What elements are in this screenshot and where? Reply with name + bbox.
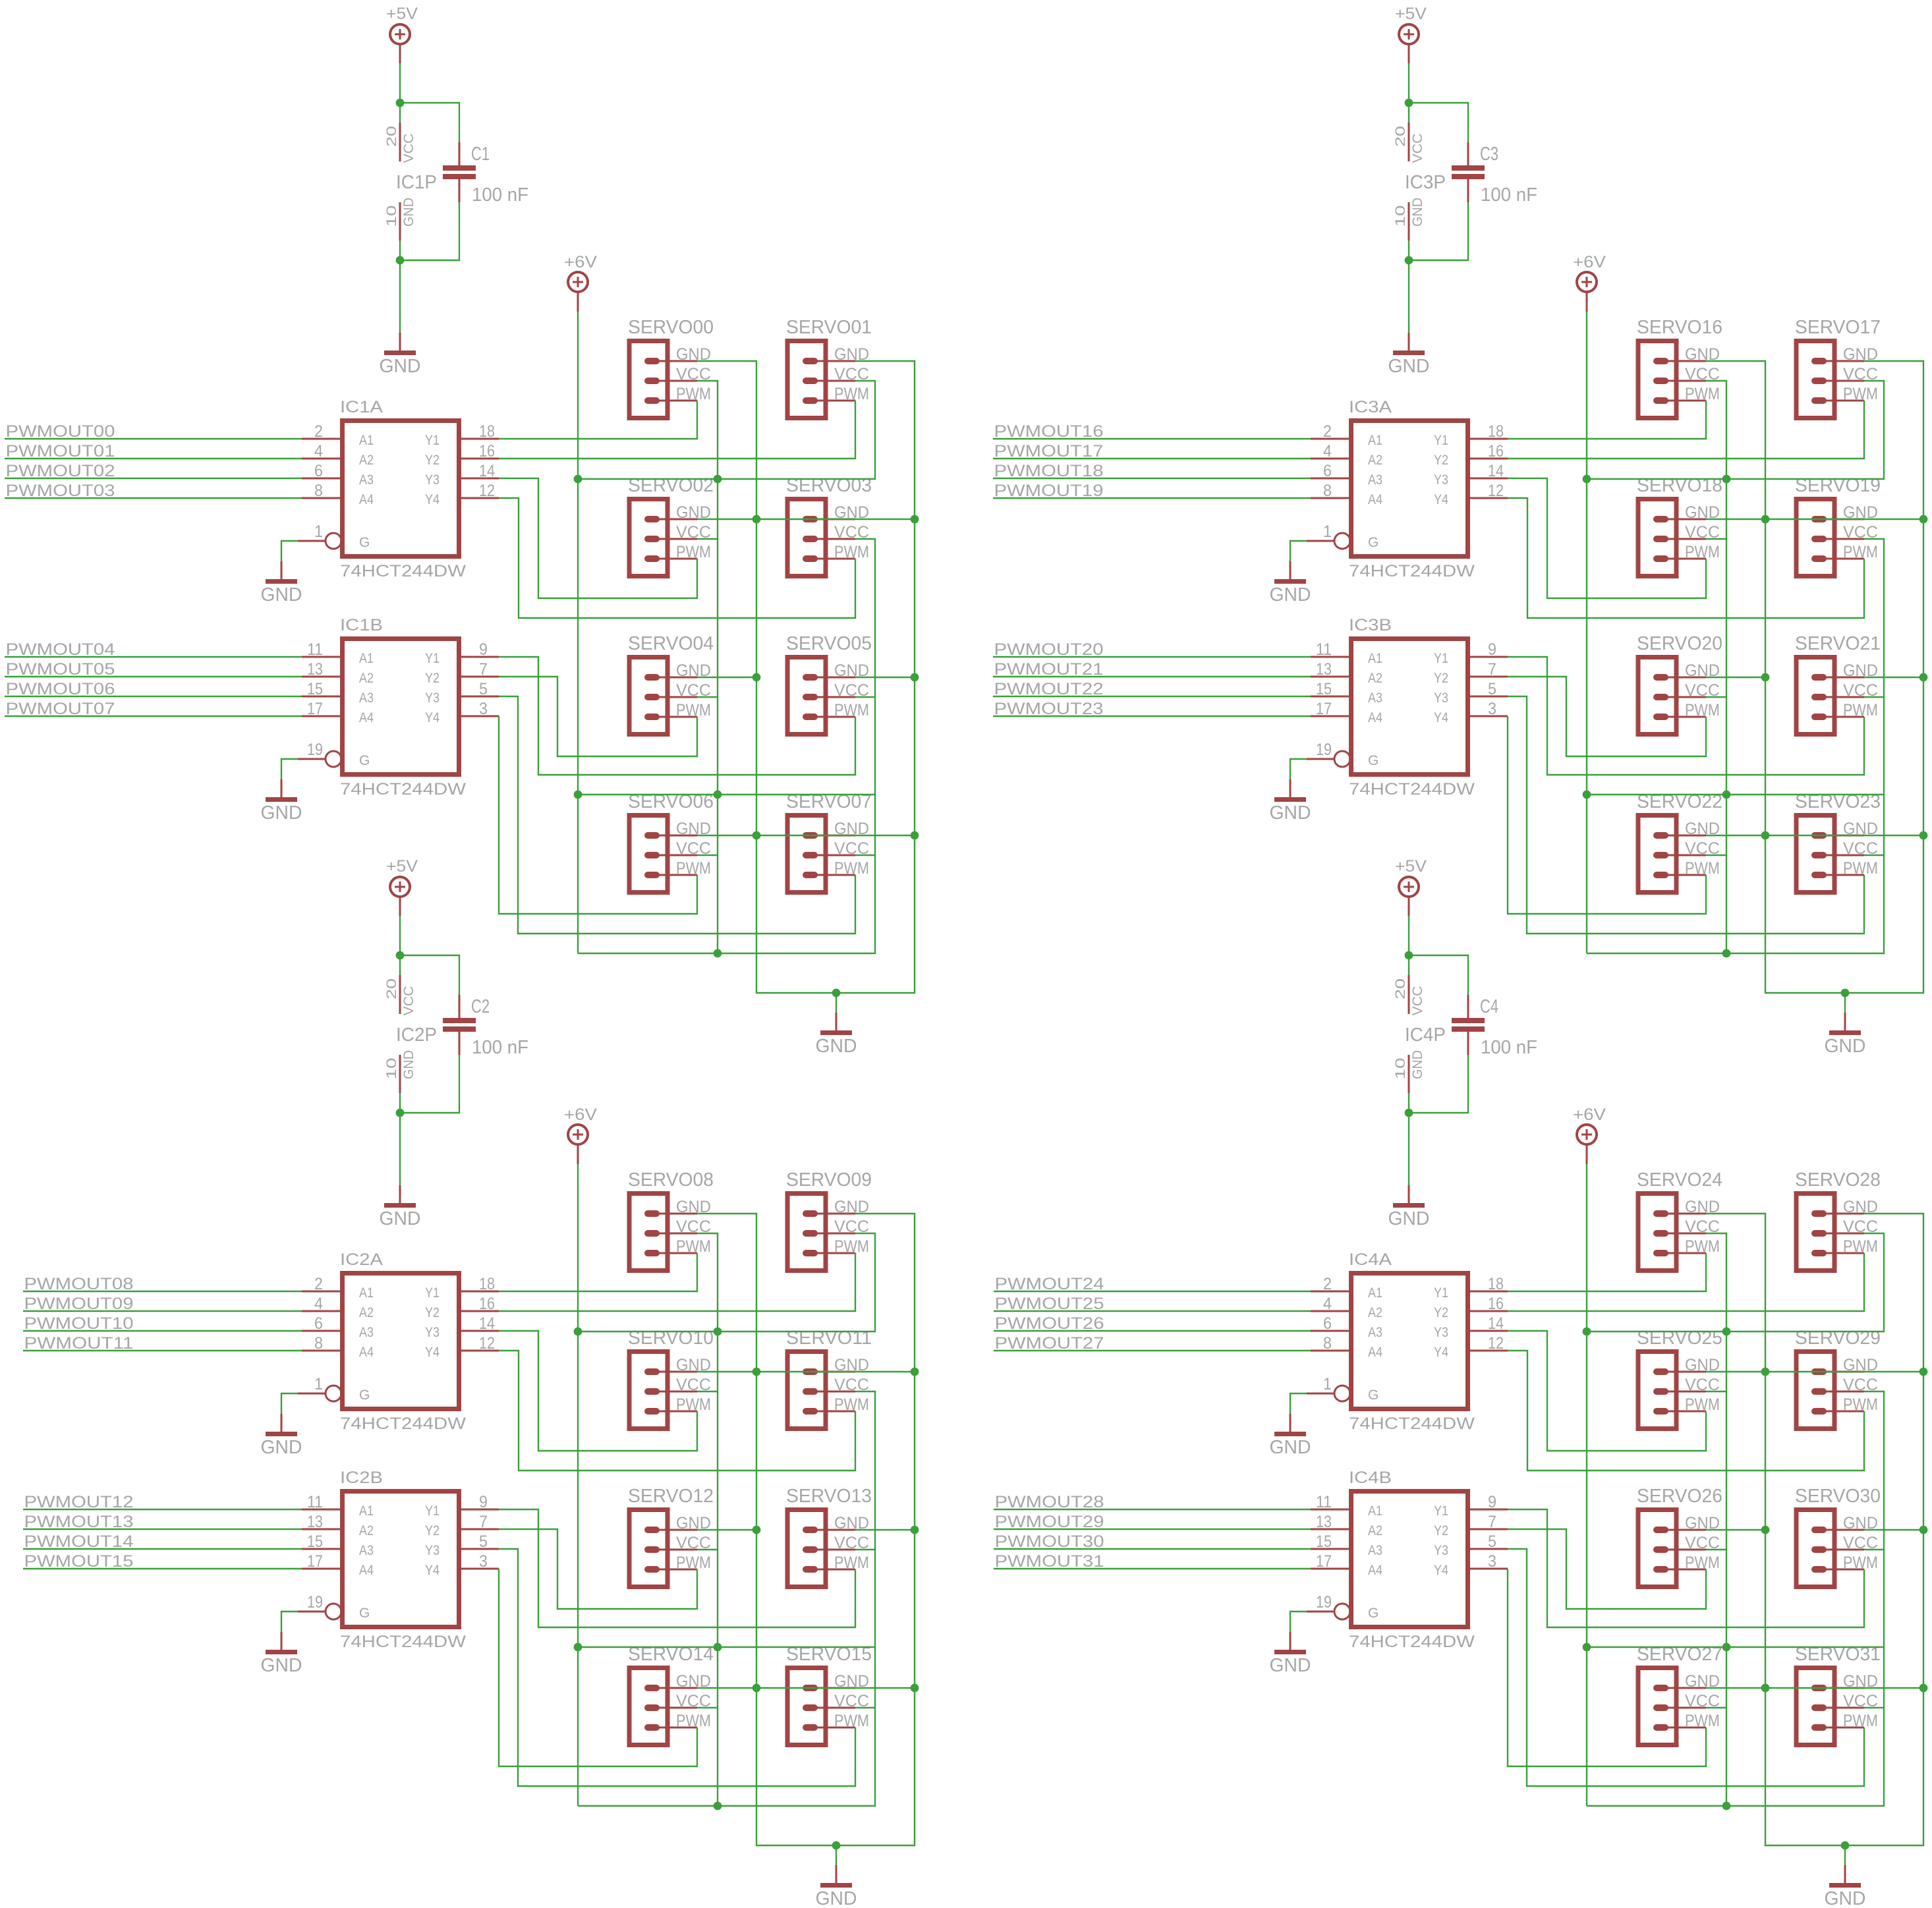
svg-text:A1: A1 bbox=[359, 1503, 374, 1519]
svg-text:100 nF: 100 nF bbox=[1481, 184, 1537, 206]
svg-text:PWM: PWM bbox=[676, 701, 711, 719]
svg-text:PWMOUT10: PWMOUT10 bbox=[24, 1314, 134, 1333]
svg-text:Y1: Y1 bbox=[425, 433, 440, 448]
svg-text:Y2: Y2 bbox=[1434, 453, 1448, 468]
svg-text:A4: A4 bbox=[359, 710, 374, 725]
svg-text:10: 10 bbox=[384, 206, 399, 227]
svg-text:A4: A4 bbox=[1368, 492, 1382, 507]
svg-text:A1: A1 bbox=[359, 651, 374, 666]
svg-text:PWM: PWM bbox=[834, 385, 869, 403]
svg-text:Y2: Y2 bbox=[1434, 1523, 1448, 1538]
svg-text:74HCT244DW: 74HCT244DW bbox=[1349, 562, 1475, 580]
svg-text:GND: GND bbox=[401, 1050, 416, 1079]
svg-text:A4: A4 bbox=[359, 1563, 374, 1578]
svg-text:A3: A3 bbox=[1368, 472, 1382, 488]
svg-text:7: 7 bbox=[479, 1513, 488, 1531]
svg-text:GND: GND bbox=[261, 1437, 302, 1458]
svg-text:8: 8 bbox=[314, 482, 323, 500]
svg-text:14: 14 bbox=[1488, 462, 1504, 480]
svg-text:C2: C2 bbox=[471, 996, 490, 1017]
svg-text:SERVO24: SERVO24 bbox=[1637, 1169, 1722, 1191]
svg-text:20: 20 bbox=[1393, 126, 1408, 147]
svg-text:20: 20 bbox=[384, 978, 399, 999]
svg-text:5: 5 bbox=[479, 1532, 488, 1551]
svg-text:G: G bbox=[359, 1388, 370, 1403]
svg-text:PWM: PWM bbox=[1685, 1554, 1720, 1572]
svg-text:Y2: Y2 bbox=[1434, 1305, 1448, 1320]
svg-text:18: 18 bbox=[479, 422, 495, 441]
svg-text:IC2P: IC2P bbox=[396, 1024, 437, 1046]
svg-text:12: 12 bbox=[1488, 482, 1504, 500]
svg-text:G: G bbox=[1368, 1388, 1378, 1403]
svg-text:10: 10 bbox=[1393, 1058, 1408, 1080]
svg-text:7: 7 bbox=[1488, 1513, 1496, 1531]
svg-text:Y2: Y2 bbox=[425, 671, 440, 686]
svg-text:Y3: Y3 bbox=[425, 1325, 440, 1340]
svg-text:G: G bbox=[1368, 753, 1378, 768]
svg-text:PWM: PWM bbox=[676, 1237, 711, 1256]
svg-text:5: 5 bbox=[479, 680, 488, 698]
svg-text:13: 13 bbox=[307, 1513, 323, 1531]
svg-text:PWM: PWM bbox=[1843, 701, 1878, 719]
svg-text:SERVO21: SERVO21 bbox=[1795, 633, 1881, 654]
svg-text:PWM: PWM bbox=[1685, 1237, 1720, 1256]
svg-text:G: G bbox=[359, 1606, 370, 1621]
svg-text:12: 12 bbox=[479, 1334, 495, 1353]
svg-text:+5V: +5V bbox=[1395, 5, 1427, 23]
svg-text:7: 7 bbox=[1488, 660, 1496, 679]
svg-text:9: 9 bbox=[479, 1493, 488, 1511]
svg-text:SERVO16: SERVO16 bbox=[1637, 317, 1722, 338]
svg-text:74HCT244DW: 74HCT244DW bbox=[340, 780, 466, 799]
svg-text:GND: GND bbox=[1410, 198, 1425, 227]
svg-text:19: 19 bbox=[307, 741, 323, 759]
svg-text:PWM: PWM bbox=[1843, 1237, 1878, 1256]
svg-text:PWM: PWM bbox=[834, 1237, 869, 1256]
svg-text:PWMOUT11: PWMOUT11 bbox=[24, 1334, 134, 1353]
svg-text:A4: A4 bbox=[359, 492, 374, 507]
svg-text:IC4B: IC4B bbox=[1349, 1469, 1392, 1487]
svg-text:SERVO20: SERVO20 bbox=[1637, 633, 1722, 654]
svg-text:+6V: +6V bbox=[1573, 253, 1606, 271]
svg-text:A3: A3 bbox=[1368, 690, 1382, 706]
svg-text:G: G bbox=[359, 535, 370, 550]
svg-text:PWMOUT01: PWMOUT01 bbox=[6, 442, 115, 461]
svg-text:Y2: Y2 bbox=[425, 453, 440, 468]
svg-text:PWM: PWM bbox=[676, 1712, 711, 1730]
svg-text:PWM: PWM bbox=[1843, 1712, 1878, 1730]
svg-text:PWM: PWM bbox=[1843, 385, 1878, 403]
svg-text:GND: GND bbox=[1270, 802, 1311, 824]
svg-text:SERVO30: SERVO30 bbox=[1795, 1486, 1881, 1507]
svg-text:3: 3 bbox=[479, 700, 488, 718]
svg-text:PWM: PWM bbox=[1685, 543, 1720, 561]
svg-text:Y4: Y4 bbox=[1434, 710, 1448, 725]
svg-text:A2: A2 bbox=[1368, 1305, 1382, 1320]
svg-text:15: 15 bbox=[307, 1532, 323, 1551]
svg-text:19: 19 bbox=[307, 1593, 323, 1612]
svg-text:100 nF: 100 nF bbox=[472, 1037, 528, 1058]
svg-text:A3: A3 bbox=[1368, 1325, 1382, 1340]
svg-text:IC1P: IC1P bbox=[396, 172, 437, 193]
svg-text:3: 3 bbox=[1488, 700, 1496, 718]
svg-text:IC1A: IC1A bbox=[340, 398, 383, 416]
svg-text:PWMOUT04: PWMOUT04 bbox=[6, 640, 115, 659]
svg-text:A1: A1 bbox=[1368, 651, 1382, 666]
svg-text:PWMOUT29: PWMOUT29 bbox=[995, 1513, 1104, 1531]
svg-text:GND: GND bbox=[1825, 1036, 1866, 1057]
svg-text:PWMOUT24: PWMOUT24 bbox=[995, 1275, 1104, 1293]
svg-text:Y3: Y3 bbox=[1434, 690, 1448, 706]
svg-text:PWMOUT30: PWMOUT30 bbox=[995, 1532, 1104, 1551]
svg-text:+6V: +6V bbox=[564, 1106, 597, 1124]
svg-text:3: 3 bbox=[479, 1552, 488, 1571]
svg-text:Y3: Y3 bbox=[425, 1543, 440, 1558]
svg-text:6: 6 bbox=[314, 1314, 323, 1333]
svg-text:1: 1 bbox=[314, 1375, 323, 1393]
svg-text:A2: A2 bbox=[1368, 1523, 1382, 1538]
svg-text:A3: A3 bbox=[1368, 1543, 1382, 1558]
svg-text:Y1: Y1 bbox=[425, 1503, 440, 1519]
svg-text:A2: A2 bbox=[359, 1523, 374, 1538]
svg-text:74HCT244DW: 74HCT244DW bbox=[340, 1415, 466, 1433]
svg-text:Y4: Y4 bbox=[1434, 492, 1448, 507]
svg-text:Y4: Y4 bbox=[425, 1345, 440, 1360]
svg-text:A3: A3 bbox=[359, 1325, 374, 1340]
svg-text:PWM: PWM bbox=[1685, 859, 1720, 878]
svg-text:1: 1 bbox=[1323, 1375, 1332, 1393]
svg-text:A2: A2 bbox=[1368, 453, 1382, 468]
svg-text:18: 18 bbox=[479, 1275, 495, 1293]
svg-text:A2: A2 bbox=[359, 1305, 374, 1320]
svg-text:GND: GND bbox=[380, 1208, 421, 1229]
svg-text:SERVO13: SERVO13 bbox=[786, 1486, 872, 1507]
svg-text:GND: GND bbox=[1410, 1050, 1425, 1079]
svg-text:PWMOUT17: PWMOUT17 bbox=[994, 442, 1104, 461]
svg-text:13: 13 bbox=[1316, 660, 1332, 679]
svg-text:SERVO08: SERVO08 bbox=[628, 1169, 714, 1191]
svg-text:6: 6 bbox=[1323, 462, 1332, 480]
svg-text:Y4: Y4 bbox=[1434, 1563, 1448, 1578]
svg-text:A4: A4 bbox=[359, 1345, 374, 1360]
svg-text:Y3: Y3 bbox=[425, 690, 440, 706]
svg-text:GND: GND bbox=[380, 356, 421, 377]
svg-text:17: 17 bbox=[1316, 1552, 1332, 1571]
svg-text:GND: GND bbox=[1270, 1437, 1311, 1458]
svg-text:7: 7 bbox=[479, 660, 488, 679]
svg-text:4: 4 bbox=[314, 1295, 323, 1313]
svg-text:74HCT244DW: 74HCT244DW bbox=[1349, 1415, 1475, 1433]
svg-text:IC3B: IC3B bbox=[1349, 616, 1392, 634]
svg-text:17: 17 bbox=[307, 700, 323, 718]
svg-text:74HCT244DW: 74HCT244DW bbox=[1349, 1633, 1475, 1651]
svg-text:IC2A: IC2A bbox=[340, 1250, 383, 1269]
svg-text:74HCT244DW: 74HCT244DW bbox=[340, 1633, 466, 1651]
svg-text:+6V: +6V bbox=[1573, 1106, 1606, 1124]
svg-text:PWM: PWM bbox=[1843, 1554, 1878, 1572]
svg-text:Y1: Y1 bbox=[1434, 651, 1448, 666]
svg-text:100 nF: 100 nF bbox=[472, 184, 528, 206]
svg-text:PWM: PWM bbox=[676, 1395, 711, 1414]
svg-text:PWM: PWM bbox=[1685, 385, 1720, 403]
svg-text:4: 4 bbox=[314, 442, 323, 461]
svg-text:PWM: PWM bbox=[1843, 1395, 1878, 1414]
svg-text:3: 3 bbox=[1488, 1552, 1496, 1571]
svg-text:15: 15 bbox=[1316, 680, 1332, 698]
svg-text:18: 18 bbox=[1488, 1275, 1504, 1293]
svg-text:GND: GND bbox=[1270, 1655, 1311, 1676]
svg-text:A3: A3 bbox=[359, 1543, 374, 1558]
svg-text:PWMOUT00: PWMOUT00 bbox=[6, 422, 115, 441]
svg-text:GND: GND bbox=[816, 1888, 857, 1908]
svg-text:SERVO28: SERVO28 bbox=[1795, 1169, 1881, 1191]
svg-text:A1: A1 bbox=[359, 1285, 374, 1301]
svg-text:IC3A: IC3A bbox=[1349, 398, 1392, 416]
svg-text:14: 14 bbox=[1488, 1314, 1504, 1333]
svg-text:GND: GND bbox=[261, 1655, 302, 1676]
svg-text:Y1: Y1 bbox=[1434, 1285, 1448, 1301]
svg-text:2: 2 bbox=[314, 1275, 323, 1293]
svg-text:+5V: +5V bbox=[386, 857, 418, 876]
svg-text:16: 16 bbox=[479, 442, 495, 461]
svg-text:Y2: Y2 bbox=[425, 1523, 440, 1538]
svg-text:A3: A3 bbox=[359, 472, 374, 488]
svg-text:Y1: Y1 bbox=[425, 651, 440, 666]
svg-text:11: 11 bbox=[307, 640, 323, 659]
svg-text:17: 17 bbox=[307, 1552, 323, 1571]
svg-text:6: 6 bbox=[314, 462, 323, 480]
svg-text:A1: A1 bbox=[359, 433, 374, 448]
svg-text:SERVO01: SERVO01 bbox=[786, 317, 872, 338]
svg-text:+5V: +5V bbox=[386, 5, 418, 23]
svg-text:PWMOUT28: PWMOUT28 bbox=[995, 1493, 1104, 1511]
svg-text:IC3P: IC3P bbox=[1405, 172, 1446, 193]
svg-text:GND: GND bbox=[1270, 584, 1311, 605]
svg-text:19: 19 bbox=[1316, 1593, 1332, 1612]
svg-text:PWMOUT05: PWMOUT05 bbox=[6, 660, 115, 679]
svg-text:10: 10 bbox=[384, 1058, 399, 1080]
svg-text:5: 5 bbox=[1488, 680, 1496, 698]
svg-text:SERVO05: SERVO05 bbox=[786, 633, 872, 654]
svg-text:G: G bbox=[1368, 535, 1378, 550]
svg-text:1: 1 bbox=[1323, 522, 1332, 541]
svg-text:100 nF: 100 nF bbox=[1481, 1037, 1537, 1058]
svg-text:G: G bbox=[359, 753, 370, 768]
svg-text:PWMOUT09: PWMOUT09 bbox=[24, 1295, 134, 1313]
svg-text:IC2B: IC2B bbox=[340, 1469, 383, 1487]
svg-text:Y1: Y1 bbox=[1434, 433, 1448, 448]
svg-text:SERVO17: SERVO17 bbox=[1795, 317, 1881, 338]
svg-text:Y3: Y3 bbox=[1434, 1543, 1448, 1558]
svg-text:PWM: PWM bbox=[676, 859, 711, 878]
svg-text:IC4P: IC4P bbox=[1405, 1024, 1446, 1046]
svg-text:GND: GND bbox=[1825, 1888, 1866, 1908]
svg-text:Y3: Y3 bbox=[1434, 472, 1448, 488]
svg-text:PWM: PWM bbox=[834, 543, 869, 561]
svg-text:Y3: Y3 bbox=[1434, 1325, 1448, 1340]
svg-text:PWMOUT23: PWMOUT23 bbox=[994, 700, 1104, 718]
svg-text:SERVO09: SERVO09 bbox=[786, 1169, 872, 1191]
svg-text:4: 4 bbox=[1323, 442, 1332, 461]
svg-text:PWMOUT21: PWMOUT21 bbox=[994, 660, 1104, 679]
svg-text:PWMOUT02: PWMOUT02 bbox=[6, 462, 115, 480]
svg-text:PWM: PWM bbox=[676, 1554, 711, 1572]
svg-text:GND: GND bbox=[1388, 1208, 1430, 1229]
svg-text:PWMOUT26: PWMOUT26 bbox=[995, 1314, 1104, 1333]
svg-text:74HCT244DW: 74HCT244DW bbox=[340, 562, 466, 580]
svg-text:16: 16 bbox=[1488, 1295, 1504, 1313]
svg-text:GND: GND bbox=[261, 802, 302, 824]
svg-text:IC4A: IC4A bbox=[1349, 1250, 1392, 1269]
svg-text:4: 4 bbox=[1323, 1295, 1332, 1313]
svg-text:A2: A2 bbox=[1368, 671, 1382, 686]
svg-text:PWMOUT12: PWMOUT12 bbox=[24, 1493, 134, 1511]
svg-text:Y2: Y2 bbox=[425, 1305, 440, 1320]
svg-text:PWM: PWM bbox=[834, 1554, 869, 1572]
svg-text:11: 11 bbox=[1316, 640, 1332, 659]
svg-text:PWM: PWM bbox=[1843, 859, 1878, 878]
svg-text:PWMOUT08: PWMOUT08 bbox=[24, 1275, 134, 1293]
svg-text:C3: C3 bbox=[1480, 144, 1498, 165]
svg-text:VCC: VCC bbox=[401, 134, 416, 163]
svg-text:C1: C1 bbox=[471, 144, 490, 165]
svg-text:11: 11 bbox=[307, 1493, 323, 1511]
svg-text:19: 19 bbox=[1316, 741, 1332, 759]
svg-text:C4: C4 bbox=[1480, 996, 1498, 1017]
svg-text:PWMOUT16: PWMOUT16 bbox=[994, 422, 1104, 441]
svg-text:+6V: +6V bbox=[564, 253, 597, 271]
svg-text:VCC: VCC bbox=[401, 986, 416, 1016]
svg-text:PWM: PWM bbox=[1685, 1395, 1720, 1414]
svg-text:PWM: PWM bbox=[1843, 543, 1878, 561]
svg-text:17: 17 bbox=[1316, 700, 1332, 718]
svg-text:A2: A2 bbox=[359, 453, 374, 468]
svg-text:PWMOUT20: PWMOUT20 bbox=[994, 640, 1104, 659]
svg-text:SERVO00: SERVO00 bbox=[628, 317, 714, 338]
svg-text:16: 16 bbox=[479, 1295, 495, 1313]
svg-text:16: 16 bbox=[1488, 442, 1504, 461]
svg-text:14: 14 bbox=[479, 1314, 495, 1333]
svg-text:GND: GND bbox=[261, 584, 302, 605]
svg-text:9: 9 bbox=[1488, 640, 1496, 659]
svg-text:74HCT244DW: 74HCT244DW bbox=[1349, 780, 1475, 799]
svg-text:SERVO26: SERVO26 bbox=[1637, 1486, 1722, 1507]
svg-text:Y4: Y4 bbox=[425, 710, 440, 725]
svg-text:VCC: VCC bbox=[1410, 134, 1425, 163]
svg-text:PWM: PWM bbox=[834, 859, 869, 878]
svg-text:PWM: PWM bbox=[1685, 701, 1720, 719]
svg-text:PWMOUT15: PWMOUT15 bbox=[24, 1552, 134, 1571]
svg-text:Y1: Y1 bbox=[1434, 1503, 1448, 1519]
svg-text:PWMOUT22: PWMOUT22 bbox=[994, 680, 1104, 698]
svg-text:14: 14 bbox=[479, 462, 495, 480]
svg-text:GND: GND bbox=[1388, 356, 1430, 377]
svg-text:A4: A4 bbox=[1368, 710, 1382, 725]
svg-text:Y4: Y4 bbox=[425, 1563, 440, 1578]
svg-text:9: 9 bbox=[1488, 1493, 1496, 1511]
svg-text:PWMOUT25: PWMOUT25 bbox=[995, 1295, 1104, 1313]
svg-text:20: 20 bbox=[384, 126, 399, 147]
svg-text:A4: A4 bbox=[1368, 1345, 1382, 1360]
svg-text:12: 12 bbox=[1488, 1334, 1504, 1353]
svg-text:10: 10 bbox=[1393, 206, 1408, 227]
svg-text:PWMOUT27: PWMOUT27 bbox=[995, 1334, 1104, 1353]
svg-text:13: 13 bbox=[307, 660, 323, 679]
svg-text:8: 8 bbox=[1323, 1334, 1332, 1353]
svg-text:G: G bbox=[1368, 1606, 1378, 1621]
svg-text:2: 2 bbox=[1323, 1275, 1332, 1293]
svg-text:PWMOUT18: PWMOUT18 bbox=[994, 462, 1104, 480]
svg-text:VCC: VCC bbox=[1410, 986, 1425, 1016]
svg-text:Y2: Y2 bbox=[1434, 671, 1448, 686]
svg-text:2: 2 bbox=[1323, 422, 1332, 441]
svg-text:+5V: +5V bbox=[1395, 857, 1427, 876]
svg-text:PWMOUT31: PWMOUT31 bbox=[995, 1552, 1104, 1571]
svg-text:PWMOUT07: PWMOUT07 bbox=[6, 700, 115, 718]
svg-text:15: 15 bbox=[1316, 1532, 1332, 1551]
svg-text:A1: A1 bbox=[1368, 433, 1382, 448]
svg-text:A4: A4 bbox=[1368, 1563, 1382, 1578]
svg-text:13: 13 bbox=[1316, 1513, 1332, 1531]
svg-text:8: 8 bbox=[1323, 482, 1332, 500]
svg-text:6: 6 bbox=[1323, 1314, 1332, 1333]
svg-text:PWMOUT06: PWMOUT06 bbox=[6, 680, 115, 698]
svg-text:PWMOUT14: PWMOUT14 bbox=[24, 1532, 134, 1551]
svg-text:A1: A1 bbox=[1368, 1285, 1382, 1301]
svg-text:20: 20 bbox=[1393, 978, 1408, 999]
svg-text:8: 8 bbox=[314, 1334, 323, 1353]
svg-text:PWM: PWM bbox=[676, 543, 711, 561]
svg-text:IC1B: IC1B bbox=[340, 616, 383, 634]
svg-text:18: 18 bbox=[1488, 422, 1504, 441]
svg-text:PWM: PWM bbox=[676, 385, 711, 403]
svg-text:PWMOUT19: PWMOUT19 bbox=[994, 482, 1104, 500]
svg-text:SERVO04: SERVO04 bbox=[628, 633, 714, 654]
svg-text:PWMOUT03: PWMOUT03 bbox=[6, 482, 115, 500]
svg-text:SERVO12: SERVO12 bbox=[628, 1486, 714, 1507]
svg-text:Y1: Y1 bbox=[425, 1285, 440, 1301]
svg-text:12: 12 bbox=[479, 482, 495, 500]
svg-text:PWM: PWM bbox=[834, 1712, 869, 1730]
svg-text:PWMOUT13: PWMOUT13 bbox=[24, 1513, 134, 1531]
svg-text:A2: A2 bbox=[359, 671, 374, 686]
svg-text:1: 1 bbox=[314, 522, 323, 541]
svg-text:Y4: Y4 bbox=[1434, 1345, 1448, 1360]
svg-text:A3: A3 bbox=[359, 690, 374, 706]
svg-text:9: 9 bbox=[479, 640, 488, 659]
svg-text:5: 5 bbox=[1488, 1532, 1496, 1551]
svg-text:11: 11 bbox=[1316, 1493, 1332, 1511]
svg-text:Y4: Y4 bbox=[425, 492, 440, 507]
svg-text:PWM: PWM bbox=[1685, 1712, 1720, 1730]
svg-text:15: 15 bbox=[307, 680, 323, 698]
svg-text:Y3: Y3 bbox=[425, 472, 440, 488]
svg-text:GND: GND bbox=[401, 198, 416, 227]
svg-text:2: 2 bbox=[314, 422, 323, 441]
svg-text:PWM: PWM bbox=[834, 701, 869, 719]
svg-text:PWM: PWM bbox=[834, 1395, 869, 1414]
svg-text:GND: GND bbox=[816, 1036, 857, 1057]
svg-text:A1: A1 bbox=[1368, 1503, 1382, 1519]
